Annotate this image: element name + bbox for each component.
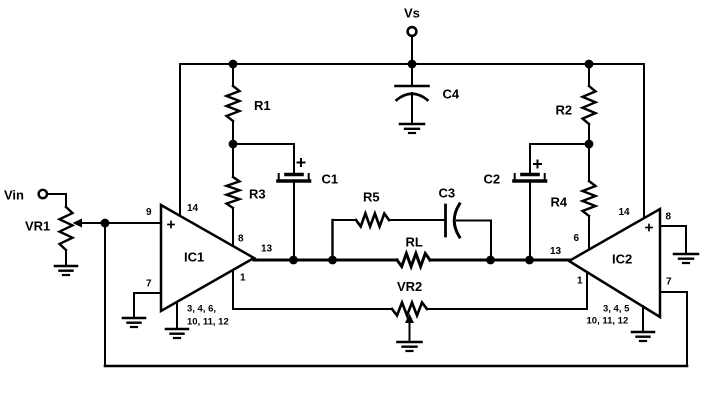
- svg-text:R4: R4: [551, 195, 568, 210]
- capacitor C3: [446, 204, 492, 260]
- wire IC2 pin 1 down to VR2 line: [586, 272, 588, 309]
- svg-text:IC2: IC2: [612, 252, 632, 267]
- resistor R5: [356, 214, 389, 227]
- svg-text:R3: R3: [249, 187, 266, 202]
- svg-text:C1: C1: [322, 172, 339, 187]
- wire IC2 pin 7 to bottom feedback line: [660, 292, 687, 366]
- node C3 branch right: [486, 256, 495, 265]
- ground IC1 bottom: [166, 329, 188, 338]
- resistor R1: [227, 64, 240, 144]
- wire C2 branch top: [530, 144, 589, 172]
- svg-text:Vs: Vs: [404, 6, 420, 21]
- node R5 branch left: [328, 256, 337, 265]
- svg-text:Vin: Vin: [4, 188, 24, 203]
- node R1 top: [229, 60, 238, 69]
- node R2/R4/C2: [585, 140, 594, 149]
- ground IC2 pin 8: [674, 254, 698, 263]
- resistor R3: [227, 144, 240, 247]
- terminal Vs: [408, 27, 417, 64]
- wire wiper to IC1 pin 9: [105, 222, 161, 224]
- wire bottom feedback line: [105, 365, 687, 368]
- svg-text:7: 7: [666, 277, 672, 288]
- capacitor C4: [396, 64, 429, 123]
- capacitor C1: [278, 159, 310, 260]
- wire IC2 pin 8 to ground: [660, 226, 686, 253]
- wire left vertical from rail to IC1 pin 14: [179, 64, 181, 217]
- svg-text:C4: C4: [443, 87, 460, 102]
- ground below C4: [400, 124, 424, 133]
- resistor RL: [397, 254, 430, 267]
- svg-text:8: 8: [666, 212, 672, 223]
- wire output line IC1 to IC2: [254, 259, 569, 262]
- wire IC1 pin 7 to ground: [134, 293, 161, 317]
- ground IC2 bottom: [632, 332, 654, 341]
- svg-text:RL: RL: [406, 235, 423, 250]
- node C2 to output line: [525, 256, 534, 265]
- svg-text:10, 11, 12: 10, 11, 12: [187, 317, 229, 328]
- node C1 to output line: [289, 256, 298, 265]
- svg-text:8: 8: [238, 234, 244, 245]
- svg-text:6: 6: [574, 233, 580, 244]
- svg-text:14: 14: [619, 207, 631, 218]
- svg-text:10, 11, 12: 10, 11, 12: [587, 316, 629, 327]
- capacitor C2: [514, 161, 546, 261]
- resistor R2: [583, 64, 596, 144]
- svg-text:14: 14: [187, 203, 199, 214]
- op-amp IC1: [161, 205, 254, 311]
- svg-text:R5: R5: [363, 190, 380, 205]
- potentiometer VR1: [60, 207, 106, 265]
- svg-text:IC1: IC1: [184, 250, 204, 265]
- ground IC1 pin 7: [123, 318, 145, 327]
- svg-text:1: 1: [240, 273, 246, 284]
- svg-text:C3: C3: [439, 186, 456, 201]
- ground below VR1: [55, 266, 77, 275]
- svg-text:13: 13: [550, 246, 562, 257]
- wire wiper junction down to bottom feedback line: [104, 223, 106, 366]
- svg-text:3, 4, 5: 3, 4, 5: [603, 304, 630, 315]
- node R1/R3/C1: [229, 140, 238, 149]
- svg-text:VR1: VR1: [25, 219, 50, 234]
- op-amp IC2: [569, 209, 660, 317]
- svg-text:VR2: VR2: [397, 279, 422, 294]
- svg-text:R1: R1: [254, 98, 271, 113]
- wire IC1 pin 1 down to VR2 line: [232, 270, 234, 309]
- wire top supply rail: [180, 63, 644, 65]
- svg-text:9: 9: [146, 207, 152, 218]
- wire C1 branch top: [233, 144, 294, 172]
- svg-text:C2: C2: [484, 172, 501, 187]
- wire IC2 bottom to ground: [642, 306, 644, 331]
- node Vs rail junction: [408, 60, 417, 69]
- resistor R4: [583, 144, 596, 250]
- svg-text:1: 1: [577, 276, 583, 287]
- svg-text:7: 7: [146, 279, 152, 290]
- terminal Vin: [39, 190, 66, 207]
- potentiometer VR2: [233, 303, 587, 342]
- svg-text:3, 4, 6,: 3, 4, 6,: [187, 304, 216, 315]
- node R2 top: [585, 60, 594, 69]
- ground below VR2: [398, 342, 422, 351]
- node VR1 wiper junction: [101, 219, 110, 228]
- wire R5/C3 branch: [333, 220, 445, 260]
- wire right vertical from rail to IC2 pin 14: [643, 64, 645, 219]
- svg-text:13: 13: [261, 244, 273, 255]
- wire IC1 bottom to ground: [176, 302, 178, 328]
- svg-text:R2: R2: [556, 103, 573, 118]
